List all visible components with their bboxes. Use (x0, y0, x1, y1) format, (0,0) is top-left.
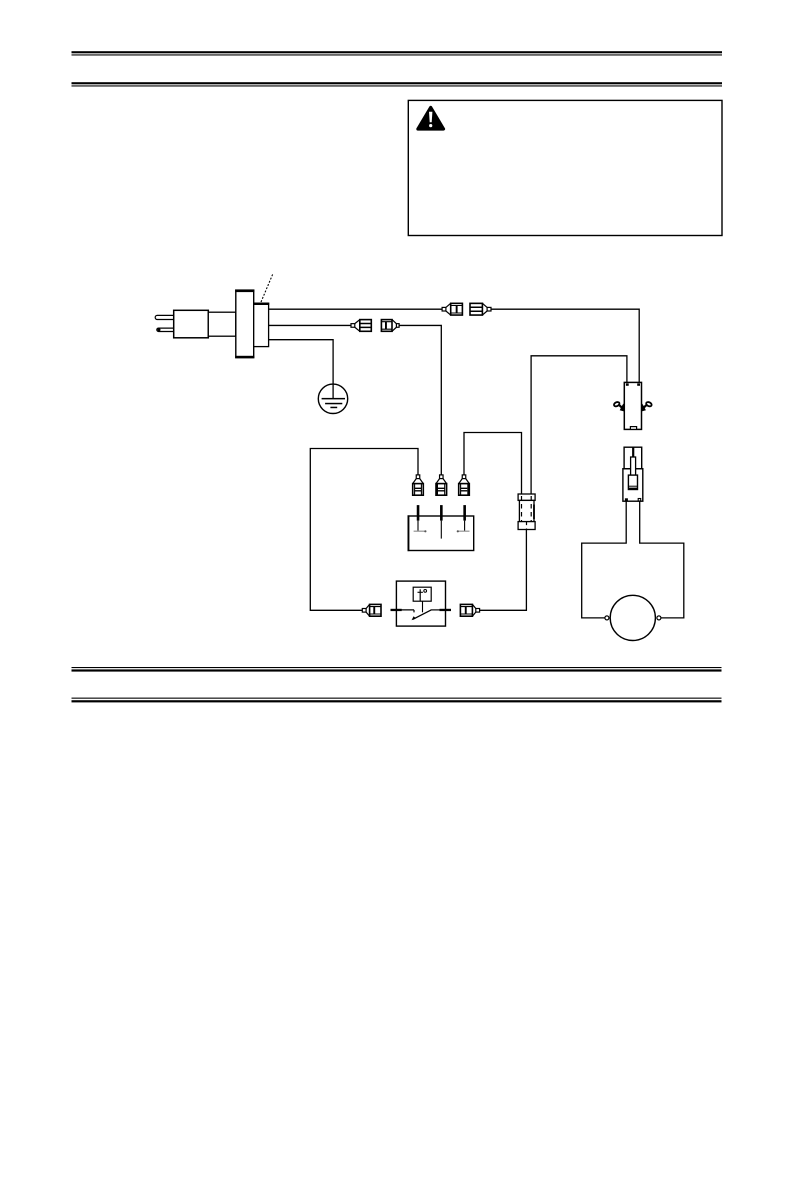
overload OL1 clip left (613, 401, 624, 411)
ground symbol (318, 384, 347, 413)
power plug P1 neck (208, 312, 236, 336)
strain relief plate (235, 290, 254, 359)
power plug P1 body (174, 310, 209, 338)
wire: relay output to inline connector bottom (480, 530, 527, 611)
wire: switch right terminal to inline connector (464, 433, 522, 495)
power plug P1 prong lower (157, 328, 175, 331)
female disconnect (top pair right) (470, 303, 491, 315)
switch S1 pin middle (440, 505, 443, 538)
wire: ground lead (269, 340, 334, 399)
page rule bottom 1 (72, 667, 722, 672)
thermal relay TP1 box (396, 581, 445, 626)
switch S1 contact left (414, 530, 427, 532)
vertical female disconnect (switch left) (413, 475, 424, 495)
switch S1 contact right (457, 530, 470, 532)
overload protector OL1 (624, 382, 641, 429)
page rule top 1 (72, 51, 723, 55)
page rule bottom 2 (72, 698, 722, 703)
female disconnect (middle pair left) (351, 320, 371, 332)
page rule top 2 (72, 82, 723, 86)
thermal relay TP1 terminal bar left (391, 609, 402, 611)
warning box (408, 100, 722, 235)
thermal relay TP1 blade (412, 610, 432, 620)
cord terminal block (253, 303, 269, 347)
vertical female disconnect (switch middle) (436, 475, 447, 495)
male disconnect (relay pair left) (362, 604, 381, 616)
vertical female disconnect (switch right) (459, 475, 470, 495)
switch S1 pin left (417, 505, 420, 531)
wire: switch left terminal to relay (310, 449, 418, 611)
male disconnect (top pair left) (442, 303, 462, 315)
wire: overload to inline connector (531, 356, 627, 494)
thermal relay TP1 terminal bar right (440, 609, 452, 611)
switch S1 pin right (463, 505, 466, 531)
thermal relay TP1 actuator (422, 601, 424, 612)
overload OL1 clip right (641, 401, 652, 411)
thermal relay TP1 contact left (396, 610, 414, 613)
wire: capacitor to motor left (582, 501, 627, 618)
motor M1 (605, 595, 661, 640)
inline connector X1 (518, 494, 535, 530)
callout leader line (261, 274, 273, 302)
start capacitor C1 (623, 447, 643, 501)
thermal relay TP1 contact right (431, 609, 446, 611)
switch S1 box (408, 515, 474, 551)
male disconnect (relay pair right) (460, 604, 479, 616)
wire: capacitor to motor right (640, 501, 684, 618)
wire: line supply middle (plug to switch center) (269, 325, 442, 475)
power plug P1 prong upper (155, 315, 175, 319)
thermal relay TP1 t-symbol box (413, 587, 431, 601)
male disconnect (middle pair right) (381, 320, 399, 332)
wire: line supply top (plug to overload) (269, 309, 640, 382)
warning triangle icon (418, 107, 444, 129)
